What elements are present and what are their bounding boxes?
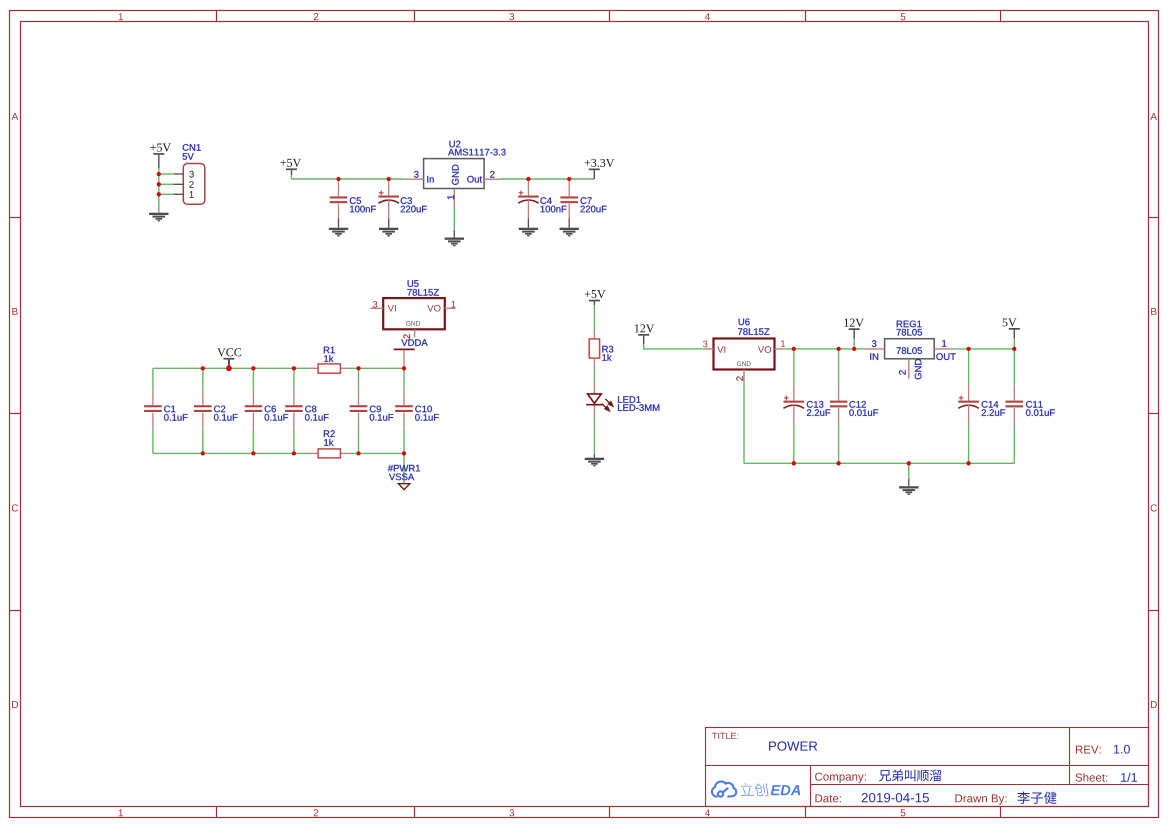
ground (C7) — [560, 218, 579, 236]
C9 labels — [370, 406, 394, 421]
junction C5 top — [336, 177, 340, 181]
wire VCC rail left — [153, 367, 309, 369]
U6 reference label — [739, 318, 750, 325]
power flag +5V (CN1) — [150, 144, 171, 169]
resistor R2 — [309, 449, 348, 458]
capacitor C9 — [350, 368, 368, 453]
junction C2 top — [201, 366, 205, 370]
capacitor C14 polarized — [958, 349, 979, 463]
U5 pin number 2 rotated — [403, 334, 410, 338]
regulator U5 78L15Z — [370, 298, 455, 337]
U5 reference label — [408, 280, 419, 287]
wire VCC rail right — [349, 367, 405, 369]
junction at CN1 pin 3 wire — [157, 172, 161, 176]
junction C6 top — [251, 366, 255, 370]
C14 labels — [982, 401, 1005, 416]
power flag 12V (REG1 input) — [844, 319, 863, 339]
C11 labels — [1026, 401, 1055, 416]
resistor R1 — [309, 364, 348, 373]
REG1 pin name GND rotated — [915, 359, 922, 379]
CN1 pin number 2 — [189, 181, 193, 188]
U6 pin number 3 — [703, 341, 708, 348]
junction 12V stem — [852, 347, 856, 351]
capacitor C4 polarized — [518, 179, 539, 218]
junction C9 bottom — [356, 451, 360, 455]
C5 labels — [350, 197, 376, 212]
junction C12 bottom — [836, 461, 840, 465]
REG1 pin name IN — [870, 353, 878, 360]
wire to CN1 pin 2 — [159, 183, 174, 185]
R1 labels — [324, 347, 335, 362]
ground (CN1) — [149, 213, 168, 222]
capacitor C3 polarized — [378, 179, 399, 218]
wire VCC stem — [228, 366, 230, 368]
capacitor C13 polarized — [784, 349, 805, 463]
U5 pin number 1 — [451, 301, 455, 308]
capacitor C7 — [560, 179, 578, 218]
resistor R3 — [589, 331, 599, 366]
wire 12V stem to rail — [853, 339, 855, 349]
U2 pin number 3 — [414, 171, 419, 178]
junction at CN1 pin 2 wire — [157, 182, 161, 186]
U2 value label — [448, 149, 506, 156]
junction C9 top — [356, 366, 360, 370]
C6 labels — [265, 406, 289, 421]
wire bottom rail left — [153, 452, 309, 454]
C12 labels — [849, 401, 878, 416]
CN1 reference label — [183, 144, 201, 151]
wire ground rail bottom right — [744, 462, 1014, 464]
power flag +5V (LED branch) — [585, 290, 606, 305]
U5 value label — [407, 289, 438, 296]
ground (REG1) — [899, 479, 918, 495]
wire +5V to U2 pin 3 — [292, 178, 405, 180]
ground (C3) — [379, 218, 398, 236]
U6 pin number 1 — [781, 340, 785, 347]
junction C3 top — [387, 177, 391, 181]
U5 pin name GND — [406, 321, 420, 326]
capacitor C12 — [830, 349, 848, 463]
junction C8 bottom — [292, 451, 296, 455]
junction C14 bottom — [966, 461, 970, 465]
C7 labels — [580, 197, 606, 212]
U6 pin number 2 rotated — [736, 376, 743, 380]
ground (C5) — [329, 218, 348, 236]
junction C8 top — [292, 366, 296, 370]
REG1 reference label — [897, 321, 922, 328]
U2 pin name Out — [467, 176, 482, 183]
U5 pin number 3 — [373, 301, 378, 308]
U2 reference label — [449, 141, 460, 148]
U2 pin number 2 — [490, 171, 494, 178]
capacitor C11 — [1006, 349, 1024, 463]
wire to CN1 pin 1 — [159, 193, 174, 195]
U5 pin name VI — [388, 305, 396, 312]
junction REG1 GND bottom — [907, 461, 911, 465]
ground (LED1) — [585, 454, 604, 466]
wire 5V stem to rail — [1013, 338, 1015, 349]
junction C12 top — [836, 347, 840, 351]
ground (U2) — [445, 230, 464, 246]
power flag +3.3V — [585, 159, 615, 179]
junction C6 bottom — [251, 451, 255, 455]
capacitor C10 — [395, 368, 413, 453]
wire REG1 GND to ground — [908, 463, 910, 479]
C4 labels — [540, 197, 566, 212]
capacitor C2 — [194, 368, 212, 453]
junction C10 top — [402, 366, 406, 370]
wire +5V stem to input rail — [291, 175, 293, 179]
C10 labels — [415, 406, 439, 421]
REG1 pin number 2 rotated — [899, 370, 906, 374]
wire R3 to LED1 — [593, 366, 595, 382]
C3 labels — [401, 197, 427, 212]
U6 pin name GND — [737, 361, 751, 366]
connector CN1 5V — [174, 164, 205, 205]
R3 labels — [602, 346, 613, 361]
wire +5V vertical to CN1 pins and ground — [158, 168, 160, 212]
net flag VSSA #PWR1 — [388, 453, 420, 489]
wire U2 out to +3.3V — [500, 178, 594, 180]
wire REG1 out to 5V — [954, 348, 1014, 350]
REG1 pin number 1 — [942, 340, 946, 347]
capacitor C6 — [245, 368, 263, 453]
U2 pin name GND rotated — [452, 165, 459, 185]
regulator REG1 78L05 — [865, 339, 955, 379]
wire U6 GND down — [743, 379, 745, 464]
C1 labels — [164, 406, 188, 421]
U5 pin name VO — [427, 305, 440, 312]
CN1 pin number 1 — [190, 191, 194, 198]
junction 5V stem — [1012, 347, 1016, 351]
REG1 pin name OUT — [936, 353, 955, 360]
U6 pin name VO — [758, 346, 771, 353]
junction VCC stem — [226, 365, 232, 371]
CN1 value label 5V — [183, 153, 194, 160]
junction C2 bottom — [201, 451, 205, 455]
junction C4 top — [526, 177, 530, 181]
C13 labels — [807, 401, 830, 416]
C2 labels — [214, 406, 238, 421]
wire +5V to R3 — [593, 305, 595, 331]
REG1 pin number 3 — [872, 340, 877, 347]
power flag 5V — [1003, 318, 1020, 338]
capacitor C8 — [285, 368, 303, 453]
REG1 value label — [896, 329, 922, 336]
power flag VCC — [217, 348, 241, 366]
wire LED1 to ground — [593, 417, 595, 455]
wire to CN1 pin 3 — [159, 173, 174, 175]
junction C14 top — [966, 347, 970, 351]
LED1 labels — [618, 396, 659, 411]
C8 labels — [305, 406, 329, 421]
junction C13 top — [792, 347, 796, 351]
CN1 pin number 3 — [189, 171, 194, 178]
junction C13 bottom — [792, 461, 796, 465]
capacitor C5 — [330, 179, 348, 218]
regulator U6 78L15Z — [705, 339, 784, 379]
U2 pin number 1 rotated — [447, 195, 454, 199]
wire bottom rail right — [349, 452, 405, 454]
wire U2 GND to ground — [453, 208, 455, 230]
wire U6 out to REG1 in — [784, 348, 865, 350]
U2 pin name In — [427, 176, 433, 183]
R2 labels — [324, 430, 335, 445]
power flag 12V (U6 input) — [635, 324, 654, 344]
diode LED1 — [586, 382, 613, 417]
net flag VDDA — [394, 339, 428, 368]
capacitor C1 — [144, 368, 162, 453]
U6 value label — [738, 328, 769, 335]
U6 pin name VI — [717, 346, 725, 353]
junction at CN1 pin 1 wire — [157, 192, 161, 196]
junction C7 top — [567, 177, 571, 181]
regulator U2 AMS1117-3.3 — [404, 159, 500, 209]
wire 12V to U6 pin 3 — [644, 344, 705, 349]
REG1 internal label 78L05 — [896, 347, 922, 354]
ground (C4) — [519, 218, 538, 236]
junction C10 bottom — [402, 451, 406, 455]
power flag +5V (U2 input) — [280, 159, 301, 175]
